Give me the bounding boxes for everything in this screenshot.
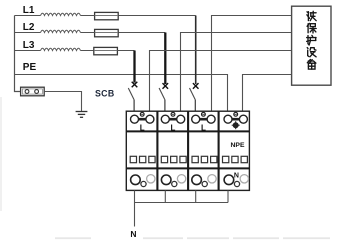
glyph 保 <box>307 23 316 33</box>
disconnector X mark, pole 2 <box>163 83 169 89</box>
svg-text:NPE: NPE <box>231 142 245 149</box>
wire: riser from module 3 output to equipment, level y=15.5 <box>212 16 292 112</box>
wire: L3 from coil to corner drop <box>81 50 135 52</box>
section divider upper <box>126 130 249 132</box>
disconnect blade, pole 1 <box>128 88 134 99</box>
module 3 top terminals <box>192 112 215 123</box>
module boundary 1 <box>156 111 158 190</box>
disconnector X mark, pole 1 <box>132 82 138 88</box>
module 4 indicator windows <box>223 156 248 162</box>
terminal block TB1 (PE link) <box>21 87 45 96</box>
wire: N conductor down <box>134 203 136 227</box>
disconnect blade, pole 2 <box>159 88 165 99</box>
module 1 top terminals <box>131 112 154 123</box>
wire: terminal block to ground <box>44 92 81 112</box>
module 1 bottom terminals <box>131 175 155 187</box>
module 3 bottom terminals <box>192 175 216 187</box>
module 3 indicator windows <box>192 156 217 162</box>
svg-text:L1: L1 <box>23 5 35 16</box>
glyph 备 <box>307 60 316 70</box>
wire: module 4 bottom stub <box>227 190 229 202</box>
module 4 earth symbol <box>232 121 240 129</box>
wire: bottom N bus <box>135 202 229 204</box>
wire: phase line L1 <box>15 15 41 17</box>
svg-text:L2: L2 <box>23 22 35 33</box>
module 4 top terminals <box>224 112 247 123</box>
disconnect blade, pole 3 <box>190 88 196 99</box>
wire: bold drop from L2 to SCB pole 2 <box>164 33 166 85</box>
fuse F1 on L1 <box>95 12 119 19</box>
svg-text:L3: L3 <box>23 40 35 51</box>
coil squiggle on L2 <box>41 30 81 32</box>
module 2 top terminals <box>161 112 184 123</box>
wire: blade to SPD terminal, pole 3 <box>194 99 196 111</box>
svg-text:L: L <box>140 123 145 132</box>
wire: blade to SPD terminal, pole 2 <box>164 99 166 111</box>
ground symbol <box>76 112 88 118</box>
svg-text:L: L <box>171 123 176 132</box>
glyph 设 <box>307 48 316 57</box>
coil squiggle on L3 <box>41 48 81 50</box>
wire: L2 from coil to corner drop <box>81 32 166 34</box>
wire: bold drop from L1 to SCB pole 3 <box>195 16 197 85</box>
module 4 bottom terminals <box>224 175 248 187</box>
module 1 indicator windows <box>130 156 155 162</box>
module boundary 3 <box>218 111 220 190</box>
svg-text:N: N <box>234 172 239 179</box>
wire: phase line L3 <box>15 50 41 52</box>
wire: module 1 bottom stub <box>134 190 136 202</box>
wire: module 2 bottom stub <box>164 190 166 202</box>
wire: blade to SPD terminal, pole 1 <box>133 99 135 111</box>
fuse F2 on L2 <box>95 29 119 36</box>
svg-text:SCB: SCB <box>95 89 114 99</box>
module 2 indicator windows <box>161 156 186 162</box>
fuse F3 on L3 <box>94 47 118 54</box>
svg-text:N: N <box>130 229 136 239</box>
faint scan edge artifact (decorative) <box>0 97 2 211</box>
glyph 被 <box>307 11 316 20</box>
protected equipment box (被保护设备) <box>292 6 331 85</box>
wire: riser from module 4 output to equipment, level y=74.5 <box>243 75 292 112</box>
coil squiggle on L1 <box>41 13 81 15</box>
module boundary 2 <box>187 111 189 190</box>
wire: L1 from coil to corner drop <box>81 15 196 17</box>
wire: phase line L2 <box>15 32 41 34</box>
wire: riser from module 1 output to equipment, level y=50.5 <box>150 51 292 112</box>
svg-text:L: L <box>201 123 206 132</box>
module 2 bottom terminals <box>161 175 185 187</box>
svg-text:PE: PE <box>23 62 37 73</box>
wire: riser from module 2 output to equipment, level y=32.5 <box>181 33 292 112</box>
wire: left vertical supply bus <box>15 16 21 92</box>
SPD device outline U1 <box>126 111 249 190</box>
wire: module 3 bottom stub <box>195 190 197 202</box>
wire: bold drop from L3 to SCB pole 1 <box>133 51 135 83</box>
glyph 护 <box>307 35 316 45</box>
section divider lower <box>126 167 249 169</box>
wire: PE line to module 4 drop <box>15 75 228 112</box>
disconnector X mark, pole 3 <box>193 83 199 89</box>
